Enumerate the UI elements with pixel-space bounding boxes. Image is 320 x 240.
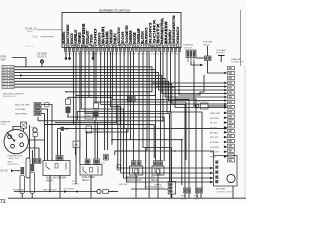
wire small connector bbox=[41, 109, 48, 161]
svg-text:WT8 PIN: WT8 PIN bbox=[3, 87, 13, 89]
svg-text:A/C SEL: A/C SEL bbox=[210, 131, 219, 134]
wire C3 to system relay bbox=[196, 57, 205, 59]
splice diamond bbox=[65, 56, 68, 60]
junction bbox=[107, 128, 109, 130]
ballast resistor R1 bbox=[26, 158, 30, 178]
wire pin 128 to K2 col bbox=[87, 51, 129, 159]
wire stair y178 extra bbox=[127, 128, 214, 182]
relay K4 (A/C) body bbox=[152, 166, 164, 175]
svg-text:OXYGEN: OXYGEN bbox=[37, 54, 47, 56]
sensor S1 connector bbox=[66, 99, 71, 105]
left connector C1 cell bbox=[2, 83, 14, 86]
knock sensor box bbox=[103, 190, 109, 194]
solenoid cell bbox=[169, 183, 172, 186]
K2 pin a bbox=[85, 159, 90, 165]
svg-text:SPEED: SPEED bbox=[155, 185, 162, 187]
wire pin 107.6 long drop bbox=[107, 51, 109, 150]
wire system relay down bbox=[208, 61, 225, 74]
TB sensor box bbox=[33, 133, 37, 137]
junction bbox=[181, 139, 183, 141]
right connector C2 bbox=[228, 67, 235, 162]
relay K1 (ASD) contact art bbox=[46, 163, 66, 170]
svg-text:SPD CTL: SPD CTL bbox=[210, 137, 220, 139]
svg-text:GY/BK 18: GY/BK 18 bbox=[24, 46, 35, 48]
wire small connector bbox=[41, 105, 52, 161]
arrow into IAC bbox=[210, 181, 214, 184]
junction bbox=[162, 120, 164, 122]
pin name labels inside U1 bbox=[62, 14, 180, 43]
wire K3 pin feed a bbox=[133, 51, 135, 160]
junction bbox=[104, 124, 106, 126]
junction bbox=[75, 128, 77, 130]
wire data link bbox=[12, 58, 26, 67]
wire stair y91.8 bbox=[66, 83, 152, 92]
relay K3 (emission) body bbox=[130, 166, 143, 175]
bottom rail wire bbox=[8, 197, 246, 199]
wire S1 up bbox=[68, 97, 89, 99]
relay K3 (emission) contact art bbox=[133, 168, 139, 175]
wire pin 100.7 to injector A bbox=[101, 51, 185, 188]
wire K1 feed a bbox=[57, 128, 59, 155]
left connector C1 cell bbox=[2, 68, 14, 71]
wire pin 112.4 to injector B bbox=[112, 51, 189, 188]
wire C1 row to C2 bbox=[14, 87, 224, 107]
injector pin bbox=[196, 188, 199, 193]
distributor tower bbox=[11, 144, 15, 148]
wire K3 bottom bbox=[135, 175, 137, 198]
wire K2 feed d bbox=[97, 123, 99, 159]
sensor S2 connector bbox=[94, 103, 99, 109]
ignition connector C3 bbox=[186, 50, 196, 58]
wire system relay bbox=[207, 46, 209, 56]
svg-text:SCI RX: SCI RX bbox=[210, 127, 218, 129]
splice diamond bbox=[68, 56, 71, 60]
wire sensor row bbox=[14, 191, 97, 193]
K3 pin a bbox=[132, 161, 136, 167]
system relay connector bbox=[205, 56, 212, 61]
capacitor C3 top plug bbox=[21, 167, 25, 174]
wire solenoid bottom bbox=[171, 194, 173, 198]
svg-text:VSS SENSOR: VSS SENSOR bbox=[196, 101, 210, 103]
pin cells of U1 bbox=[64, 48, 180, 51]
svg-text:PWR GND: PWR GND bbox=[210, 113, 221, 115]
wire K2 bottom bbox=[90, 175, 92, 198]
svg-text:FUEL: FUEL bbox=[181, 196, 187, 198]
relay K2 (fuel pump) body bbox=[80, 165, 102, 176]
svg-text:COIL: COIL bbox=[1, 124, 7, 126]
svg-text:IGN RUN: IGN RUN bbox=[210, 147, 219, 149]
pin function text row inside U1 bbox=[64, 43, 181, 48]
svg-text:B+ FEED: B+ FEED bbox=[210, 142, 219, 144]
wire K3 pin feed b bbox=[138, 51, 140, 160]
wire S1 tail bbox=[67, 113, 69, 117]
arrow into IAC bbox=[210, 177, 214, 180]
temp sender T1 bbox=[218, 56, 225, 63]
wire pin 170.5 drop bbox=[77, 51, 170, 120]
wire K1 bottom a bbox=[49, 176, 51, 192]
arrowhead into C2 bbox=[224, 85, 227, 88]
capacitor C4 top plug bbox=[31, 164, 35, 171]
solenoid block body bbox=[168, 182, 175, 195]
svg-text:CONTROL MTR: CONTROL MTR bbox=[216, 191, 232, 193]
arrow system relay bbox=[224, 72, 227, 75]
arrowhead y128.4 into C2 bbox=[224, 127, 227, 130]
wire pin 175 drop bbox=[175, 51, 196, 188]
svg-text:EMISSION: EMISSION bbox=[127, 177, 138, 179]
junction bbox=[65, 91, 67, 93]
knock sensor bulb bbox=[97, 189, 101, 193]
junction bbox=[111, 128, 113, 130]
wire y151 to IAC bbox=[115, 151, 214, 156]
distributor tower bbox=[20, 143, 24, 147]
wire distributor right 2 bbox=[28, 148, 39, 159]
svg-text:A.I.R.: A.I.R. bbox=[8, 161, 14, 164]
wire sender wire bbox=[208, 105, 224, 107]
wire sender feed bbox=[194, 62, 197, 106]
svg-text:ASD OUT: ASD OUT bbox=[210, 151, 220, 154]
wire cap C3 stub bbox=[21, 194, 23, 199]
wire cap column 2 bbox=[29, 125, 31, 158]
sheet border right bbox=[240, 10, 242, 66]
arrow C2 stub bbox=[224, 150, 228, 153]
injector pin bbox=[188, 188, 191, 193]
sheet border lower bbox=[244, 66, 246, 197]
wire pin 81.2 staircase bbox=[81, 51, 213, 178]
left pin stack b bbox=[38, 159, 42, 164]
arrow C2 stub bbox=[224, 131, 228, 134]
wire sensor row tail bbox=[108, 191, 118, 193]
solenoid cell bbox=[169, 187, 172, 190]
svg-text:IGN COIL DRV: IGN COIL DRV bbox=[15, 105, 30, 107]
wire pin 167 to inj B2 bbox=[167, 51, 202, 188]
junction bbox=[111, 191, 113, 193]
wire pin 171 stub bbox=[170, 112, 172, 199]
junction bbox=[123, 128, 125, 130]
K4 pin a bbox=[154, 161, 158, 167]
wire C1 row to C2 bbox=[14, 84, 224, 104]
svg-text:GM: GM bbox=[65, 129, 69, 131]
wire pin 120.2 band bbox=[119, 51, 121, 124]
GM splice box bbox=[61, 127, 65, 131]
wire C1 row to C2 bbox=[14, 76, 224, 94]
distributor tower bbox=[19, 134, 23, 138]
wire K4 bottom bbox=[157, 175, 159, 198]
svg-text:SCI TX: SCI TX bbox=[210, 123, 217, 125]
svg-text:COIL NEG: COIL NEG bbox=[15, 109, 26, 111]
svg-text:DATA: DATA bbox=[1, 56, 7, 59]
svg-text:RELAY: RELAY bbox=[203, 43, 211, 46]
svg-text:SOLENOID: SOLENOID bbox=[8, 164, 19, 166]
wire pin 104.6 long drop bbox=[104, 51, 106, 150]
IAC pin cells bbox=[215, 161, 218, 184]
svg-text:TO: TO bbox=[72, 181, 75, 183]
junction bbox=[111, 139, 113, 141]
wire IAC bottom bbox=[232, 186, 234, 198]
svg-text:LINK: LINK bbox=[1, 59, 7, 61]
arrowhead into C2 bbox=[224, 92, 227, 95]
fuse box on row bbox=[45, 103, 50, 107]
wire stair y168 bbox=[95, 105, 97, 107]
wire C1 row to C2 bbox=[14, 73, 224, 90]
svg-text:FUEL PUMP: FUEL PUMP bbox=[82, 177, 95, 179]
svg-text:IGNADV: IGNADV bbox=[176, 25, 180, 43]
junction bbox=[86, 131, 88, 133]
left connector C1 cell bbox=[2, 74, 14, 77]
wire a-trans bbox=[131, 188, 168, 190]
svg-text:CONNECT BT: CONNECT BT bbox=[231, 61, 245, 63]
wire pin 79.9 to K2 bbox=[79, 51, 81, 164]
wire y168 feed bbox=[118, 105, 214, 169]
left connector C1 cell bbox=[2, 80, 14, 83]
wire C1 row to C2 bbox=[14, 78, 224, 97]
arrowhead into C2 bbox=[224, 82, 227, 85]
arrowhead into C2 bbox=[224, 103, 227, 106]
wire x145.7 drop bbox=[145, 148, 147, 190]
wire y117 band bbox=[67, 117, 164, 161]
wire C1 row to C2 bbox=[14, 81, 224, 100]
wire K4 pin feed a bbox=[155, 51, 157, 160]
wire note 2 bbox=[41, 36, 55, 38]
arrow C2 stub bbox=[224, 126, 228, 129]
arrow C2 stub bbox=[224, 141, 228, 144]
svg-text:BK/WT: BK/WT bbox=[27, 31, 34, 33]
small connector block bbox=[34, 107, 41, 111]
svg-text:SWITCH: SWITCH bbox=[184, 47, 193, 49]
junction bbox=[104, 128, 106, 130]
wire C1 row to C2 bbox=[14, 70, 224, 87]
solenoid cell bbox=[169, 190, 172, 193]
sensor S2 body bbox=[94, 111, 99, 118]
relay K2 (fuel pump) contact art bbox=[83, 167, 98, 174]
canister box bbox=[117, 165, 121, 171]
arrow C2 stub bbox=[224, 136, 228, 139]
small connector block bbox=[34, 112, 41, 116]
injector pin bbox=[200, 188, 203, 193]
arrow C3 bbox=[200, 64, 204, 67]
junction bbox=[75, 95, 77, 97]
svg-text:LOW PRESS: LOW PRESS bbox=[63, 188, 75, 190]
wire C3 to relay bbox=[191, 62, 200, 65]
sender bulb bbox=[195, 104, 199, 108]
relay K1 (ASD) body bbox=[43, 161, 70, 176]
svg-text:RELAY: RELAY bbox=[151, 179, 159, 182]
capacitor C4 bbox=[30, 172, 35, 194]
wire stair y95.4 bbox=[76, 87, 155, 96]
wire TB down bbox=[34, 137, 36, 159]
arrow C2 stub bbox=[224, 121, 228, 124]
wire y120.8 left end bbox=[37, 117, 39, 121]
svg-text:FUEL: FUEL bbox=[194, 196, 200, 198]
distributor tower bbox=[8, 135, 12, 139]
svg-text:MAP: MAP bbox=[86, 115, 92, 118]
svg-text:HC-O2: HC-O2 bbox=[1, 171, 9, 173]
left connector C1 cell bbox=[2, 77, 14, 80]
wire oxygen sensor bbox=[41, 59, 43, 67]
upper pin stack a bbox=[127, 97, 131, 103]
K2 pin b bbox=[94, 159, 100, 165]
svg-text:4WD SW: 4WD SW bbox=[119, 184, 127, 186]
svg-text:A/C: A/C bbox=[151, 176, 155, 179]
wire pin 116.3 left band bbox=[55, 51, 116, 122]
oxygen sensor bulb bbox=[40, 60, 43, 63]
svg-text:SENDER: SENDER bbox=[216, 52, 225, 54]
C3 pins bbox=[188, 58, 194, 63]
TB sensor bulb bbox=[33, 128, 37, 132]
svg-text:RELAY: RELAY bbox=[82, 179, 90, 182]
wire pin 149.1 drop bbox=[148, 51, 150, 198]
MAP sensor box bbox=[85, 112, 93, 119]
wire injector stub bbox=[188, 193, 190, 198]
left connector C1 cell bbox=[2, 65, 14, 68]
wire distributor feed bbox=[13, 127, 21, 130]
wire pin stub bbox=[65, 51, 67, 57]
svg-text:SENSOR: SENSOR bbox=[155, 187, 164, 189]
wire pin 179 drop bbox=[179, 51, 204, 95]
arrow into IAC bbox=[210, 172, 214, 175]
wire pin stub bbox=[92, 51, 94, 57]
left pin stack a bbox=[33, 159, 37, 164]
sender box bbox=[201, 103, 209, 109]
arrow C2 stub bbox=[224, 155, 228, 158]
K4 pin b bbox=[159, 161, 163, 167]
wire K2 feed c bbox=[94, 120, 96, 159]
wire long y128.4 bbox=[58, 127, 225, 129]
wire pin 89 to IAC top bbox=[89, 51, 112, 144]
wire pin stub bbox=[69, 51, 71, 57]
svg-text:START: START bbox=[72, 183, 80, 186]
ECU/PCM connector U1 bbox=[62, 12, 181, 47]
arrow C2 stub bbox=[224, 116, 228, 119]
K1 pins bbox=[56, 156, 63, 161]
wire pin 108.5? stair bbox=[111, 51, 214, 173]
wire pin 94 to x186 bbox=[94, 51, 186, 160]
junction bbox=[144, 128, 146, 130]
junction bbox=[49, 191, 51, 193]
capacitor C3 bbox=[20, 175, 25, 194]
svg-text:IGNITION: IGNITION bbox=[184, 45, 194, 47]
svg-text:SENSOR: SENSOR bbox=[37, 56, 47, 58]
sensor S1 body bbox=[66, 107, 71, 114]
left connector C1 cell bbox=[2, 71, 14, 74]
arrowhead into C2 bbox=[224, 89, 227, 92]
svg-text:TO MIL 14: TO MIL 14 bbox=[25, 28, 37, 31]
injector pin bbox=[184, 188, 187, 193]
wire K1 feed b bbox=[60, 132, 62, 156]
svg-text:IGNITION CONTROL: IGNITION CONTROL bbox=[3, 94, 25, 96]
wire pin 124.1 long line bbox=[123, 51, 125, 128]
TPS box bbox=[86, 126, 92, 133]
wire pin 85.1 to solenoid col bbox=[85, 51, 169, 181]
junction bbox=[174, 150, 176, 152]
wire K1 bottom b bbox=[59, 176, 61, 199]
svg-text:IGNITION: IGNITION bbox=[1, 122, 11, 124]
wire pin 96 sensor S2 bbox=[95, 51, 97, 103]
wire small connector bbox=[41, 114, 45, 161]
wire K4 pin feed b bbox=[160, 51, 162, 160]
wire cap2 plug feed bbox=[31, 150, 33, 164]
svg-text:SYSTEM: SYSTEM bbox=[203, 42, 212, 44]
mid pin stack bbox=[104, 154, 109, 160]
svg-text:MODULE C2: MODULE C2 bbox=[3, 96, 17, 98]
relay K4 (A/C) contact art bbox=[155, 168, 160, 175]
svg-text:IDLE AIR: IDLE AIR bbox=[216, 188, 225, 191]
K3 pin b bbox=[137, 161, 141, 167]
left connector C1 cell bbox=[2, 86, 14, 89]
arrow sender bbox=[224, 105, 228, 108]
junction bbox=[116, 122, 118, 124]
arrow HC-O2 bbox=[11, 169, 14, 172]
arrow sensor row bbox=[64, 190, 67, 193]
wire pin 163 band bbox=[38, 51, 163, 121]
coil X-box bbox=[21, 122, 27, 128]
svg-text:SIG RTN: SIG RTN bbox=[210, 118, 219, 120]
upper pin stack b bbox=[132, 97, 136, 103]
wire cap C4 stub bbox=[31, 194, 33, 199]
wire injector stub bbox=[196, 193, 198, 198]
svg-text:G 12: G 12 bbox=[33, 36, 39, 39]
arrow C2 stub bbox=[224, 112, 228, 115]
arrowhead into C2 bbox=[224, 106, 227, 109]
wire y124.6 band bbox=[45, 125, 154, 158]
wire y139.7 left ext bbox=[112, 139, 131, 141]
TB75 box bbox=[73, 141, 80, 148]
wire distributor right 1 bbox=[28, 139, 44, 141]
IAC motor housing bbox=[214, 156, 238, 187]
wire C1 row to C2 bbox=[14, 67, 224, 83]
svg-text:ASSY 4.0L: ASSY 4.0L bbox=[9, 157, 20, 160]
arrow C2 stub bbox=[224, 146, 228, 149]
svg-text:AUTO SHUTDOWN: AUTO SHUTDOWN bbox=[46, 177, 66, 180]
wire injector stub bbox=[200, 193, 202, 198]
arrowhead into C2 bbox=[224, 99, 227, 102]
junction bbox=[119, 124, 121, 126]
wire S2 tail bbox=[95, 117, 97, 120]
wire injector stub bbox=[184, 193, 186, 198]
wire pin 73.4 to coil area bbox=[45, 51, 73, 124]
wire note to U1 bbox=[37, 29, 63, 31]
svg-text:THROTTLE: THROTTLE bbox=[93, 130, 105, 132]
IAC motor M1 bbox=[227, 174, 235, 182]
svg-text:71: 71 bbox=[0, 199, 6, 204]
wire pin 147 drop bbox=[115, 51, 147, 155]
small connector block bbox=[34, 103, 41, 107]
wire pin 130.5 mid bbox=[131, 51, 182, 185]
wire pin 143 drop bbox=[143, 51, 172, 181]
arrowhead into C2 bbox=[224, 96, 227, 99]
distributor rotor dot bbox=[13, 140, 15, 142]
arrow into IAC bbox=[210, 167, 214, 170]
splice diamond bbox=[92, 56, 95, 60]
junction bbox=[130, 128, 132, 130]
svg-text:MAINT RELAY: MAINT RELAY bbox=[127, 179, 142, 182]
junction sensor row bbox=[76, 191, 78, 193]
svg-text:TACH: TACH bbox=[210, 156, 216, 159]
svg-text:POS SENS: POS SENS bbox=[93, 132, 105, 134]
distributor rotor arm bbox=[7, 132, 14, 140]
arrow on C1 row 4 bbox=[20, 74, 23, 77]
wire TB75 down a bbox=[74, 148, 76, 156]
wire pin 76 to starter label bbox=[75, 51, 77, 184]
wire coil to distributor bbox=[23, 128, 25, 131]
svg-text:TACH FEED: TACH FEED bbox=[15, 113, 28, 116]
distributor body bbox=[4, 129, 28, 153]
